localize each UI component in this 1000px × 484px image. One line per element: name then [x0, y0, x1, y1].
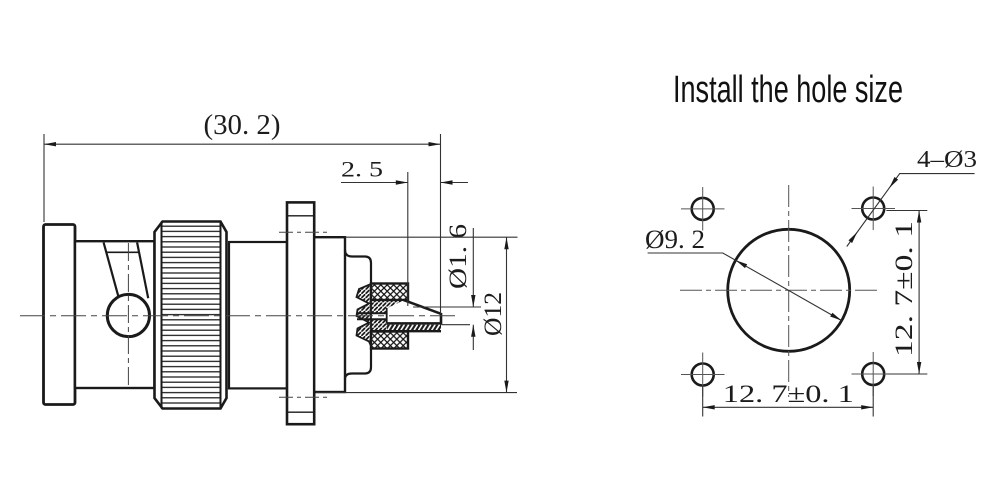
body mid section [229, 242, 287, 388]
flange [287, 202, 314, 424]
rear nut cap [44, 225, 76, 405]
pin lower hatched sleeve [387, 325, 441, 330]
insulator upper hatch band [369, 300, 408, 313]
dim 2.5 right arrow [441, 180, 453, 184]
pin left edge [386, 308, 388, 323]
pin taper line [403, 300, 441, 314]
dim (30.2) left arrow [44, 142, 56, 146]
right dim down arrow [917, 362, 921, 374]
D9.2 leader underline [648, 253, 842, 321]
dim D1.6 lower extension line [442, 324, 471, 326]
big circle horizontal centerline [680, 289, 878, 291]
svg-text:(30. 2): (30. 2) [204, 110, 281, 141]
dim (30.2) left extension line [43, 134, 45, 222]
right dim bottom extension line [886, 373, 927, 375]
bayonet pin circle [107, 294, 149, 336]
top-left circle ticks [681, 187, 725, 231]
bayonet slot right diagonal [137, 243, 148, 299]
knurl lines [162, 224, 221, 405]
dim D12 line [506, 237, 508, 392]
lower band upper edge [357, 318, 387, 320]
dim D1.6 up arrow [471, 325, 475, 337]
svg-text:12. 7±0. 1: 12. 7±0. 1 [723, 381, 854, 408]
dim D1.6 line upper [472, 228, 474, 307]
sleeve bottom edge [371, 330, 441, 332]
right dim line [918, 211, 920, 375]
top-right circle ticks [852, 187, 896, 231]
dim (30.2) right arrow [429, 142, 441, 146]
D9.2 upper arrow [736, 260, 748, 268]
insulator top crosshatch block [371, 284, 408, 301]
hole top-right circle [862, 198, 884, 220]
dim D1.6 upper extension line [413, 306, 481, 308]
bayonet slot left diagonal [104, 243, 119, 297]
knurl inner edge left [161, 222, 163, 409]
bottom dim left extension line [702, 386, 704, 417]
pin tip right edge [440, 313, 443, 325]
bayonet pin vertical centerline [127, 243, 129, 385]
insulator left zigzag gasket [357, 284, 372, 346]
4-D3 upper arrow [889, 177, 898, 188]
bayonet slot cross line [106, 251, 140, 253]
right dim up arrow [917, 211, 921, 223]
hole bottom-right circle [862, 363, 884, 385]
dim (30.2) right extension line [440, 134, 442, 314]
bottom-right circle ticks [852, 352, 896, 396]
knurl inner edge right [220, 222, 222, 409]
D9.2 lower arrow [830, 313, 842, 321]
dim 2.5 left arrow [396, 180, 408, 184]
svg-text:12. 7±0. 1: 12. 7±0. 1 [891, 221, 918, 357]
flange hole centerline top [279, 231, 331, 233]
insulator lower hatch band [369, 319, 387, 332]
4-D3 lower arrow [849, 232, 858, 243]
bottom dim left arrow [703, 405, 715, 409]
band lower edge left of pin [357, 312, 387, 314]
dim D1.6 line lower [472, 325, 474, 350]
bottom dim right extension line [872, 386, 874, 417]
dim 2.5 left line [341, 182, 408, 184]
flange hole edge top [288, 215, 314, 217]
dim D12 lower extension line [316, 392, 517, 394]
hole drawing big circle [728, 229, 850, 351]
svg-text:Install the hole size: Install the hole size [673, 69, 903, 111]
bottom-left circle ticks [681, 353, 725, 397]
dim D12 down arrow [504, 381, 508, 393]
svg-text:4–Ø3: 4–Ø3 [917, 147, 977, 173]
right dim top extension line [886, 210, 927, 212]
flange hole edge bottom [288, 411, 314, 413]
neck bottom profile [345, 348, 371, 380]
flange hole centerline bottom [279, 396, 331, 398]
4-D3 leader [847, 174, 975, 247]
bottom dim right arrow [861, 405, 873, 409]
big circle vertical centerline [788, 185, 790, 397]
insulator bottom crosshatch block [371, 332, 408, 349]
axis centerline [20, 315, 455, 317]
bottom dim line [703, 406, 874, 408]
dim D1.6 down arrow [471, 295, 475, 307]
dim 2.5 right line [441, 182, 469, 184]
dim D12 up arrow [504, 237, 508, 249]
dim (30.2) line [44, 143, 441, 145]
hole top-left circle [692, 198, 714, 220]
svg-text:2. 5: 2. 5 [341, 157, 383, 182]
dim 2.5 left extension line [407, 172, 409, 306]
knurl nut outline [155, 222, 227, 409]
svg-text:Ø9. 2: Ø9. 2 [645, 225, 705, 254]
body left section [75, 241, 155, 388]
center pin white body [387, 301, 442, 323]
neck top profile [345, 250, 371, 284]
dim D12 upper extension line [345, 236, 518, 238]
pin bottom edge [387, 322, 443, 325]
svg-text:Ø1. 6: Ø1. 6 [445, 224, 472, 289]
svg-text:Ø12: Ø12 [480, 292, 507, 336]
body right section [314, 237, 345, 392]
hole bottom-left circle [692, 364, 714, 386]
